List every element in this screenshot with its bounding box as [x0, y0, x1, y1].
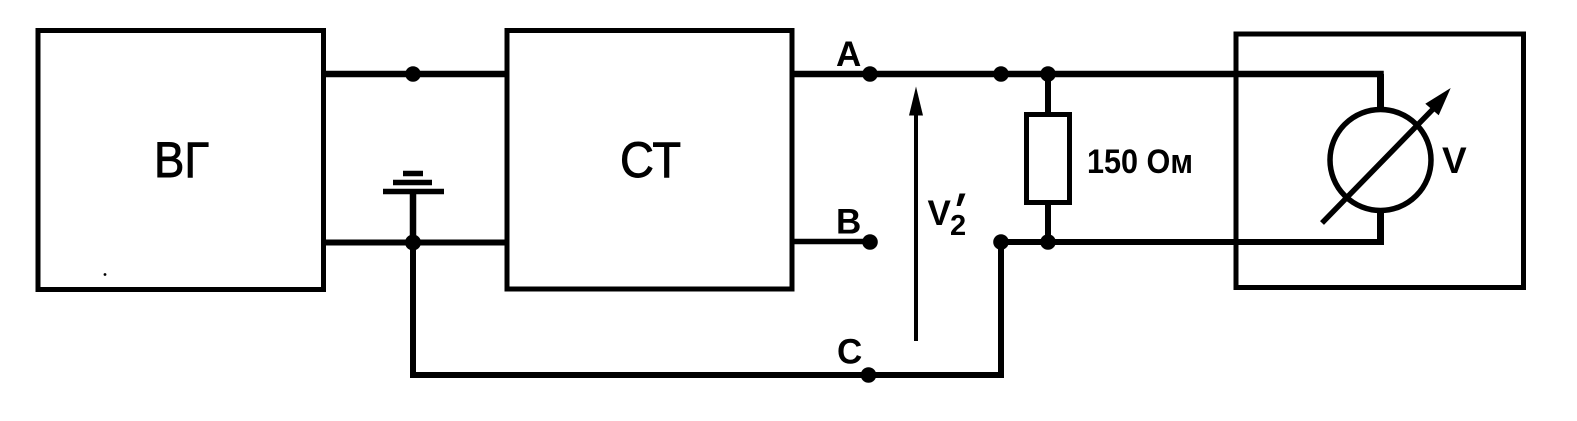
svg-text:V: V	[1442, 140, 1467, 181]
svg-text:A: A	[836, 35, 861, 74]
svg-text:СТ: СТ	[620, 132, 681, 188]
svg-text:V: V	[928, 194, 952, 233]
svg-text:150 Ом: 150 Ом	[1087, 143, 1193, 181]
svg-text:ВГ: ВГ	[154, 132, 209, 188]
svg-text:2: 2	[950, 210, 966, 242]
svg-text:B: B	[836, 203, 861, 242]
svg-text:C: C	[837, 333, 862, 372]
